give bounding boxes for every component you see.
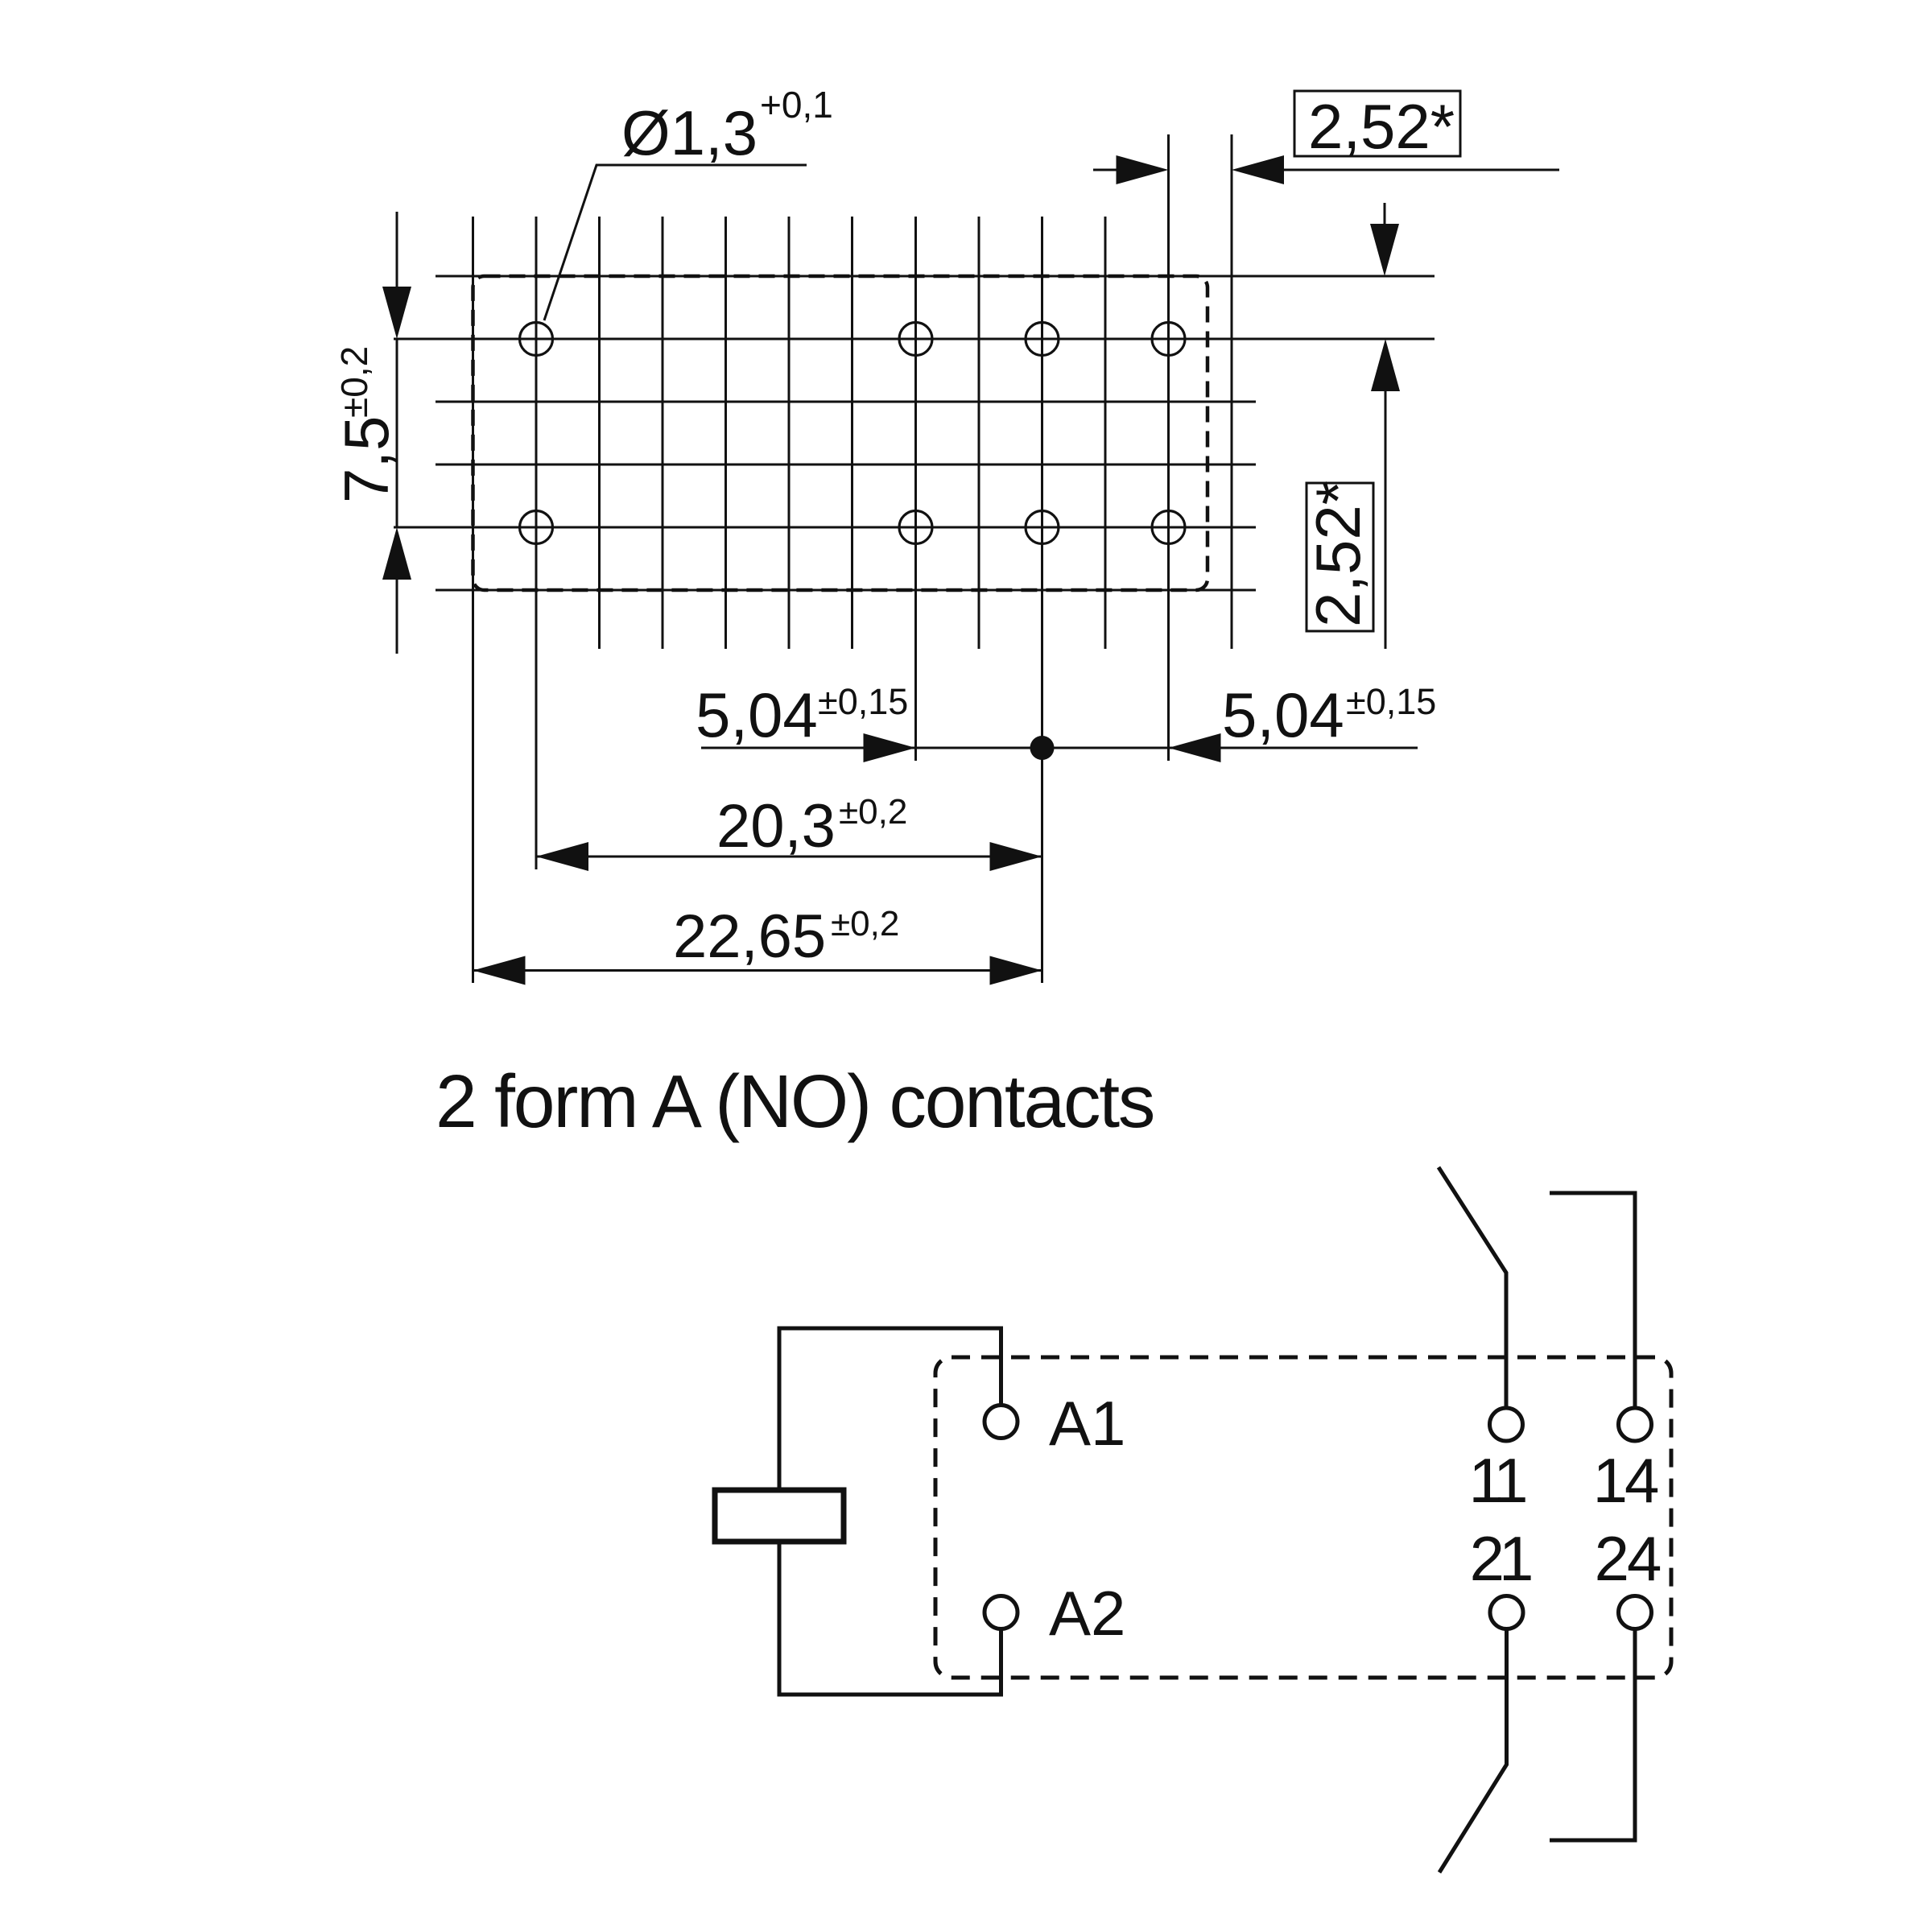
terminal 21	[1490, 1596, 1523, 1629]
svg-text:24: 24	[1595, 1523, 1661, 1594]
svg-text:±0,2: ±0,2	[839, 792, 907, 832]
svg-text:±0,15: ±0,15	[1346, 681, 1436, 722]
svg-text:A1: A1	[1049, 1388, 1125, 1459]
solder pad hole 4	[1152, 323, 1185, 356]
svg-text:±0,15: ±0,15	[818, 681, 908, 722]
svg-text:11: 11	[1469, 1445, 1526, 1516]
svg-text:A2: A2	[1049, 1578, 1125, 1649]
solder pad hole 7	[1026, 511, 1059, 544]
reference arrow down to relay outline top edge	[1370, 203, 1399, 276]
dimension 7,5 line and arrows	[382, 212, 411, 654]
svg-text:2 form A (NO) contacts: 2 form A (NO) contacts	[436, 1059, 1154, 1143]
dimension 20,3 line and arrows	[536, 842, 1042, 871]
relay schematic outline (dashed)	[935, 1357, 1671, 1678]
value label 5,04 ±0,15 (right)	[1222, 679, 1436, 750]
coil	[715, 1490, 844, 1542]
svg-text:+0,1: +0,1	[760, 84, 833, 126]
contact 24 fixed contact (wire)	[1550, 1629, 1635, 1840]
value label 7,5 ±0,2 (rotated)	[331, 346, 402, 503]
svg-text:21: 21	[1470, 1523, 1531, 1594]
reference arrow up to hole row with extension	[1371, 339, 1400, 649]
terminal 24	[1619, 1596, 1652, 1629]
pcb drill grid vertical lines	[473, 134, 1232, 983]
terminal 11	[1490, 1408, 1523, 1441]
svg-text:20,3: 20,3	[716, 792, 836, 861]
value label 22,65 ±0,2	[673, 902, 899, 971]
solder pad hole 5	[520, 511, 553, 544]
svg-text:7,5: 7,5	[331, 416, 402, 503]
svg-text:2,52*: 2,52*	[1302, 481, 1373, 627]
wire coil top to A1	[779, 1328, 1001, 1490]
svg-text:22,65: 22,65	[673, 902, 826, 971]
value label 20,3 ±0,2	[716, 792, 907, 861]
leader line for hole diameter	[544, 165, 807, 320]
contact 11 moving blade (wire)	[1439, 1167, 1506, 1408]
svg-text:±0,2: ±0,2	[333, 346, 375, 418]
value label 2,52* top (boxed)	[1294, 91, 1460, 162]
svg-text:±0,2: ±0,2	[831, 904, 899, 943]
svg-text:5,04: 5,04	[1222, 679, 1344, 750]
contact 21 moving blade (wire)	[1439, 1629, 1507, 1872]
terminal A1	[985, 1406, 1018, 1439]
value label 5,04 ±0,15 (left)	[696, 679, 908, 750]
solder pad hole 1	[520, 323, 553, 356]
solder pad hole 8	[1152, 511, 1185, 544]
dimension 22,65 line and arrows	[473, 956, 1042, 985]
value label diameter 1,3 +0,1	[621, 84, 833, 168]
value label 2,52* right (boxed, rotated)	[1302, 481, 1373, 631]
svg-text:5,04: 5,04	[696, 679, 818, 750]
svg-text:14: 14	[1593, 1445, 1658, 1516]
solder pad hole 6	[899, 511, 932, 544]
solder pad hole 2	[899, 323, 932, 356]
svg-text:2,52*: 2,52*	[1308, 91, 1455, 162]
terminal 14	[1619, 1408, 1652, 1441]
wire coil bottom to A2	[779, 1542, 1001, 1695]
pcb drill grid horizontal lines	[394, 276, 1435, 590]
contact 14 fixed contact (wire)	[1550, 1193, 1635, 1406]
svg-text:Ø1,3: Ø1,3	[621, 97, 758, 168]
terminal A2	[985, 1596, 1018, 1629]
dimension 2,52 top: lines and arrows	[1093, 155, 1559, 184]
dimension 5,04 line with arrows and junction dot	[701, 733, 1418, 762]
solder pad hole 3	[1026, 323, 1059, 356]
relay body outline (dashed)	[473, 276, 1208, 590]
